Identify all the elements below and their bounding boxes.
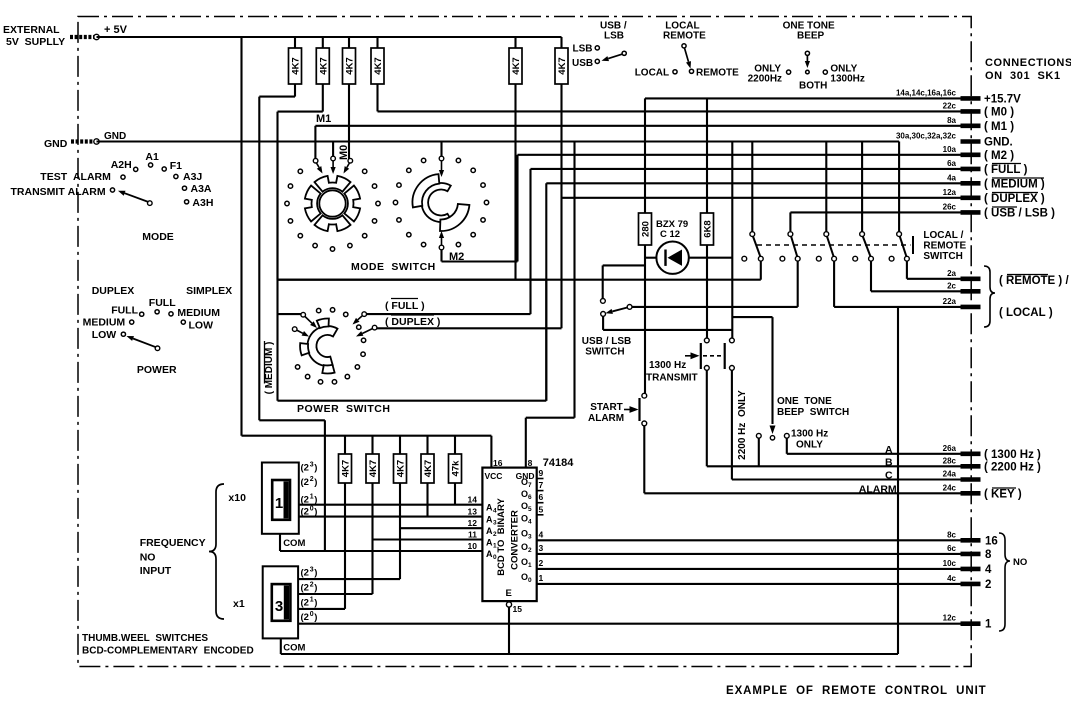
1300Hz transmit switch S7	[685, 338, 734, 370]
svg-text:O: O	[521, 572, 528, 582]
svg-text:( KEY ): ( KEY )	[984, 488, 1022, 500]
zener diode BZX79C12 label	[656, 219, 688, 240]
wire 22c (M0) row	[378, 84, 961, 111]
svg-text:4K7: 4K7	[291, 57, 302, 74]
wire +5V drop to VCC	[242, 37, 492, 468]
connector row USB/LSB	[943, 202, 1055, 219]
svg-text:START: START	[590, 402, 623, 413]
svg-text:USB / LSB: USB / LSB	[582, 336, 631, 347]
svg-text:A: A	[486, 503, 493, 513]
svg-text:4K7: 4K7	[318, 57, 329, 74]
svg-text:A: A	[486, 549, 493, 559]
frequency no input label	[140, 537, 206, 577]
svg-text:ON 301 SK1: ON 301 SK1	[985, 70, 1061, 82]
svg-text:10c: 10c	[943, 559, 957, 568]
external 5V supply terminal	[3, 24, 99, 48]
rotary switch wafer M0/M1 gear	[285, 169, 380, 251]
svg-text:( M1 ): ( M1 )	[984, 121, 1014, 133]
svg-text:LSB: LSB	[573, 44, 593, 55]
svg-text:ALARM: ALARM	[588, 413, 624, 424]
dash-dot border frame	[78, 17, 971, 667]
LOCAL REMOTE legend	[635, 21, 739, 79]
wire 2a line	[278, 261, 761, 280]
svg-text:POWER SWITCH: POWER SWITCH	[297, 403, 390, 415]
wire A1 row pin11	[373, 538, 483, 540]
svg-text:POWER: POWER	[137, 364, 177, 376]
svg-text:(2: (2	[301, 583, 309, 594]
thumbwheel switch x1	[263, 566, 298, 638]
svg-text:1: 1	[310, 494, 314, 501]
wire A0 row pin10	[280, 550, 482, 552]
wire row 2	[537, 583, 961, 585]
svg-text:TRANSMIT ALARM: TRANSMIT ALARM	[11, 186, 106, 198]
U1 right pin labels 4-1	[521, 528, 544, 584]
svg-text:LOW: LOW	[92, 329, 117, 341]
svg-text:SIMPLEX: SIMPLEX	[186, 285, 232, 297]
svg-text:4a: 4a	[947, 173, 956, 182]
svg-text:): )	[314, 612, 317, 623]
wire 6K8 column	[706, 245, 708, 340]
svg-text:M1: M1	[316, 113, 331, 125]
svg-text:5: 5	[539, 504, 544, 514]
wire row B 2200Hz	[707, 370, 961, 468]
wire 2c line	[871, 261, 961, 291]
svg-text:LOW: LOW	[189, 320, 214, 332]
svg-text:( M2 ): ( M2 )	[984, 150, 1014, 162]
mode gear contact arrows	[313, 142, 352, 175]
connections title	[985, 57, 1071, 82]
svg-text:LOCAL: LOCAL	[635, 68, 669, 79]
wire A2 row pin12	[400, 527, 482, 529]
svg-text:O: O	[521, 528, 528, 538]
node M1 label	[316, 113, 331, 125]
svg-text:6: 6	[539, 492, 544, 502]
svg-text:COM: COM	[283, 538, 305, 549]
svg-text:4K7: 4K7	[341, 460, 352, 477]
svg-text:7: 7	[528, 482, 532, 489]
svg-text:INPUT: INPUT	[140, 565, 172, 577]
svg-text:( 2200 Hz ): ( 2200 Hz )	[984, 461, 1041, 473]
U1 GND pin 8	[516, 142, 575, 482]
svg-text:A1: A1	[145, 151, 159, 163]
svg-text:E: E	[506, 588, 512, 599]
svg-text:GND.: GND.	[984, 137, 1013, 149]
svg-text:12c: 12c	[943, 614, 957, 623]
svg-text:THUMB.WEEL SWITCHES: THUMB.WEEL SWITCHES	[82, 633, 208, 644]
svg-text:2: 2	[310, 476, 314, 483]
power selector legend	[83, 285, 233, 341]
svg-text:): )	[314, 583, 317, 594]
svg-text:NO: NO	[140, 552, 156, 564]
svg-text:10a: 10a	[943, 145, 957, 154]
svg-text:M0: M0	[338, 145, 350, 160]
svg-text:A2H: A2H	[111, 159, 132, 171]
connector rows remote/local	[943, 266, 1070, 327]
mode selector legend	[11, 151, 214, 209]
svg-text:VCC: VCC	[485, 471, 503, 481]
svg-text:8c: 8c	[947, 530, 956, 539]
wire R5 / mode box right edge	[514, 84, 516, 280]
1300 Hz only label	[791, 429, 828, 451]
power selector pointer	[127, 336, 160, 351]
svg-text:USB: USB	[572, 58, 593, 69]
wire 4a (MEDIUM) row	[546, 183, 960, 400]
NO brace	[999, 533, 1027, 631]
svg-text:4: 4	[528, 518, 532, 525]
wire 14a +15.7V row	[645, 98, 961, 213]
connector row 1300Hz	[943, 444, 1041, 461]
svg-text:): )	[314, 598, 317, 609]
svg-text:14a,14c,16a,16c: 14a,14c,16a,16c	[896, 88, 957, 97]
svg-text:+ 5V: + 5V	[104, 24, 128, 36]
connector output rows	[943, 530, 998, 630]
USB/LSB switch S6	[601, 265, 733, 330]
mode switch box	[278, 142, 547, 280]
svg-text:2: 2	[528, 547, 532, 554]
svg-text:3: 3	[310, 567, 314, 574]
x10 COM	[280, 534, 305, 551]
svg-text:1: 1	[493, 543, 497, 550]
svg-text:24a: 24a	[943, 470, 957, 479]
svg-text:O: O	[521, 513, 528, 523]
svg-text:22c: 22c	[943, 101, 957, 110]
svg-text:C: C	[885, 470, 893, 482]
svg-text:(2: (2	[301, 598, 309, 609]
svg-text:( FULL ): ( FULL )	[385, 300, 425, 312]
x1 bit labels	[301, 567, 318, 624]
svg-text:26a: 26a	[943, 444, 957, 453]
USB/LSB switch label	[582, 336, 631, 358]
svg-text:4K7: 4K7	[368, 460, 379, 477]
U1 right pins 9-5 stubs	[521, 468, 544, 525]
resistor R13 47k	[449, 436, 462, 483]
x1 label	[233, 598, 245, 610]
svg-text:ONLY: ONLY	[796, 440, 823, 451]
svg-text:x10: x10	[228, 492, 246, 504]
USB/LSB legend	[572, 21, 627, 70]
svg-text:7: 7	[539, 480, 544, 490]
IC U1 74184 box	[482, 457, 574, 601]
svg-text:2: 2	[539, 558, 544, 568]
svg-text:16: 16	[493, 458, 503, 468]
svg-text:2: 2	[985, 579, 991, 591]
svg-text:6: 6	[528, 494, 532, 501]
U1 rotated name	[496, 498, 521, 576]
local/remote switch actuator dashed link	[757, 236, 913, 254]
wire +5V rail	[97, 37, 562, 48]
1300Hz transmit label	[646, 360, 698, 384]
resistor R3 4K7	[343, 48, 356, 84]
svg-text:BCD TO BINARY: BCD TO BINARY	[496, 498, 507, 576]
svg-text:BCD-COMPLEMENTARY ENCODED: BCD-COMPLEMENTARY ENCODED	[82, 646, 254, 657]
net (FULL) label	[385, 299, 425, 313]
svg-text:A: A	[486, 538, 493, 548]
POWER label	[137, 364, 177, 376]
svg-text:6K8: 6K8	[703, 220, 714, 237]
svg-text:11: 11	[468, 530, 477, 540]
wire 6a (FULL) row	[364, 169, 960, 314]
local/remote switch contacts S1-S5	[742, 232, 909, 261]
wire M0 net R3 to mode switch	[348, 84, 350, 160]
svg-text:9: 9	[539, 468, 544, 478]
resistor R1 4K7	[289, 48, 302, 84]
svg-text:1: 1	[528, 562, 532, 569]
svg-text:O: O	[521, 557, 528, 567]
svg-text:LSB: LSB	[604, 31, 624, 42]
U1 left pins A4-A0	[468, 495, 497, 561]
x1 COM	[281, 638, 306, 654]
svg-text:A: A	[885, 444, 893, 456]
wire 26c (USB/LSB) row	[790, 212, 960, 231]
net (DUPLEX) label	[385, 315, 440, 328]
svg-text:2a: 2a	[947, 269, 956, 278]
zener diode D1	[645, 242, 732, 274]
resistor R4 4K7	[371, 48, 384, 84]
svg-text:B: B	[885, 457, 893, 469]
svg-text:A3J: A3J	[183, 171, 202, 183]
svg-text:): )	[314, 568, 317, 579]
svg-text:3: 3	[528, 533, 532, 540]
svg-text:CONVERTER: CONVERTER	[510, 510, 521, 570]
svg-text:( 1300 Hz ): ( 1300 Hz )	[984, 449, 1041, 461]
svg-text:( FULL ): ( FULL )	[984, 164, 1028, 176]
svg-text:4K7: 4K7	[345, 57, 356, 74]
svg-text:( REMOTE ) /: ( REMOTE ) /	[999, 275, 1069, 287]
power switch label	[297, 403, 390, 415]
svg-text:2200 Hz ONLY: 2200 Hz ONLY	[737, 390, 748, 460]
svg-text:4K7: 4K7	[423, 460, 434, 477]
resistor R9 4K7	[339, 436, 352, 483]
wire R2 to MEDIUM net	[278, 84, 323, 401]
resistor R2 4K7	[316, 48, 329, 84]
svg-text:0: 0	[310, 506, 314, 513]
frequency input brace	[209, 484, 224, 619]
svg-text:13: 13	[468, 507, 478, 517]
svg-text:3: 3	[275, 598, 283, 615]
svg-text:4: 4	[493, 508, 497, 515]
svg-text:LOCAL /: LOCAL /	[923, 230, 963, 241]
svg-text:15: 15	[513, 604, 523, 614]
wire x1 2^2 row	[298, 593, 372, 595]
connector row 24a	[943, 470, 981, 480]
node M2 label	[449, 251, 464, 263]
svg-text:REMOTE: REMOTE	[663, 31, 706, 42]
svg-text:A3A: A3A	[191, 183, 212, 195]
wire col R10 down	[371, 483, 373, 594]
svg-text:( DUPLEX ): ( DUPLEX )	[984, 193, 1045, 205]
svg-text:( MEDIUM ): ( MEDIUM )	[984, 178, 1045, 190]
mode selector pointer	[118, 191, 152, 206]
one tone beep switch S9	[732, 317, 789, 466]
svg-text:BOTH: BOTH	[799, 81, 827, 92]
wire col R13 down	[454, 483, 456, 505]
U1 VCC pin 16	[485, 458, 503, 481]
svg-text:O: O	[521, 501, 528, 511]
svg-text:MEDIUM: MEDIUM	[177, 307, 220, 319]
svg-text:1: 1	[985, 619, 992, 631]
svg-text:5V SUPLLY: 5V SUPLLY	[6, 36, 65, 48]
wire zener to GND column	[731, 142, 733, 340]
M2 wafer contact arrows	[439, 142, 444, 250]
svg-text:4: 4	[985, 564, 992, 576]
+5V label	[104, 24, 128, 36]
svg-text:COM: COM	[283, 643, 305, 654]
resistor R10 4K7	[366, 436, 379, 483]
wire 2a bar segment	[907, 261, 961, 279]
2200 Hz ONLY rotated label	[737, 390, 748, 460]
svg-text:EXAMPLE OF REMOTE CONTROL: EXAMPLE OF REMOTE CONTROL UNIT	[726, 685, 987, 697]
thumbwheel caption	[82, 633, 254, 657]
svg-text:(2: (2	[301, 612, 309, 623]
svg-text:x1: x1	[233, 598, 245, 610]
svg-text:5: 5	[528, 506, 532, 513]
wire 8a (M1) row	[315, 126, 960, 160]
svg-text:4K7: 4K7	[511, 57, 522, 74]
svg-text:): )	[314, 477, 317, 488]
svg-text:12: 12	[468, 518, 478, 528]
connector row KEY	[943, 483, 1022, 500]
svg-text:6a: 6a	[947, 159, 956, 168]
mode switch label	[351, 261, 436, 273]
power wafer contacts	[278, 312, 377, 337]
svg-text:REMOTE: REMOTE	[696, 68, 739, 79]
svg-text:BEEP SWITCH: BEEP SWITCH	[777, 407, 849, 418]
wire 12a (DUPLEX) row	[375, 84, 961, 328]
svg-text:1: 1	[275, 495, 283, 512]
svg-text:SWITCH: SWITCH	[923, 251, 962, 262]
svg-text:C 12: C 12	[660, 229, 680, 240]
wire row ALARM	[644, 426, 960, 496]
U1 E pin 15	[506, 588, 523, 654]
svg-text:+15.7V: +15.7V	[984, 93, 1021, 105]
svg-text:O: O	[521, 477, 528, 487]
svg-text:ALARM: ALARM	[859, 484, 897, 496]
svg-text:MODE: MODE	[142, 231, 174, 243]
svg-text:8a: 8a	[947, 116, 956, 125]
wire row 8	[537, 553, 961, 555]
thumbwheel switch x10	[262, 463, 299, 534]
svg-text:MODE SWITCH: MODE SWITCH	[351, 261, 436, 273]
svg-text:14: 14	[468, 495, 478, 505]
wire 22a to COM vertical	[281, 307, 898, 654]
svg-text:26c: 26c	[943, 202, 957, 211]
svg-text:3: 3	[493, 520, 497, 527]
wire x1 2^1 row	[298, 608, 345, 610]
svg-text:M2: M2	[449, 251, 464, 263]
connector row MEDIUM	[947, 173, 1045, 190]
svg-text:(2: (2	[301, 463, 309, 474]
rotary switch wafer POWER	[295, 308, 365, 384]
svg-text:4K7: 4K7	[557, 57, 568, 74]
start alarm label	[588, 402, 624, 424]
svg-text:12a: 12a	[943, 188, 957, 197]
svg-text:ONE TONE: ONE TONE	[777, 396, 832, 407]
svg-text:CONNECTIONS: CONNECTIONS	[985, 57, 1071, 69]
svg-text:EXTERNAL: EXTERNAL	[3, 24, 60, 36]
svg-text:24c: 24c	[943, 483, 957, 492]
MODE label	[142, 231, 174, 243]
svg-text:A: A	[486, 526, 493, 536]
svg-text:FREQUENCY: FREQUENCY	[140, 537, 206, 549]
wire A4 row pin14	[299, 504, 483, 506]
svg-text:TEST ALARM: TEST ALARM	[40, 171, 111, 183]
wire switch tops to GND	[752, 142, 899, 232]
resistor R8 6K8	[701, 213, 714, 245]
svg-text:1300 Hz: 1300 Hz	[649, 360, 686, 371]
svg-text:4c: 4c	[947, 574, 956, 583]
resistor R11 4K7	[394, 436, 407, 483]
rotary switch wafer M2	[393, 158, 488, 246]
svg-text:A: A	[486, 515, 493, 525]
connector rows top	[896, 88, 1021, 161]
svg-text:10: 10	[468, 541, 478, 551]
svg-text:NO: NO	[1013, 557, 1027, 568]
svg-text:(2: (2	[301, 477, 309, 488]
svg-text:0: 0	[493, 554, 497, 561]
svg-text:BEEP: BEEP	[797, 31, 825, 42]
svg-text:1: 1	[310, 597, 314, 604]
one tone beep switch label	[777, 396, 849, 418]
svg-text:( DUPLEX ): ( DUPLEX )	[385, 316, 440, 328]
connector row DUPLEX	[943, 188, 1045, 205]
resistor R5 4K7	[509, 48, 522, 84]
wire 10a (M2) row	[442, 155, 961, 262]
resistor R7 280	[639, 213, 652, 245]
x10 bit labels	[301, 462, 318, 518]
wire 22a line right	[834, 261, 960, 307]
svg-text:47k: 47k	[451, 460, 462, 477]
connector row 2200Hz	[943, 456, 1041, 473]
svg-text:3: 3	[539, 543, 544, 553]
svg-text:28c: 28c	[943, 456, 957, 465]
ONE TONE BEEP legend	[748, 21, 865, 92]
svg-text:SWITCH: SWITCH	[585, 347, 624, 358]
svg-text:30a,30c,32a,32c: 30a,30c,32a,32c	[896, 132, 957, 141]
wire row 16	[537, 539, 961, 541]
wire col R11 down	[399, 483, 401, 579]
svg-text:0: 0	[528, 577, 532, 584]
wire x1 2^3 row	[298, 578, 400, 580]
bottom resistor feed	[0, 0, 1, 1]
wire col R9 down	[344, 483, 346, 609]
node M0 label	[338, 145, 350, 160]
svg-text:74184: 74184	[543, 457, 574, 469]
svg-text:6c: 6c	[947, 544, 956, 553]
drawing title	[726, 685, 987, 697]
resistor R12 4K7	[421, 436, 434, 483]
wire row C	[732, 370, 961, 481]
svg-text:2200Hz: 2200Hz	[748, 74, 782, 85]
svg-text:A3H: A3H	[192, 197, 213, 209]
svg-text:2: 2	[310, 582, 314, 589]
svg-text:( USB / LSB ): ( USB / LSB )	[984, 207, 1055, 219]
wire col R12 down	[426, 483, 428, 517]
svg-text:4K7: 4K7	[396, 460, 407, 477]
svg-text:( M0 ): ( M0 )	[984, 106, 1014, 118]
svg-text:8: 8	[985, 549, 992, 561]
wire A3 row pin13	[299, 516, 483, 518]
svg-text:2: 2	[493, 531, 497, 538]
svg-text:( LOCAL ): ( LOCAL )	[999, 307, 1053, 319]
svg-text:22a: 22a	[943, 297, 957, 306]
resistor R6 4K7	[555, 48, 568, 84]
svg-text:O: O	[521, 542, 528, 552]
svg-text:280: 280	[641, 221, 652, 237]
svg-text:FULL: FULL	[111, 305, 138, 317]
svg-text:GND: GND	[44, 138, 68, 150]
wire R1 to COM net	[259, 84, 325, 551]
svg-text:GND: GND	[104, 131, 126, 142]
